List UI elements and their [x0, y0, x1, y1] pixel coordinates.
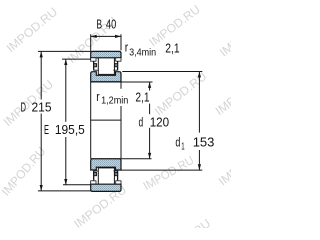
wire d dimension line seg3 [149, 128, 151, 159]
wire E dimension line lower [65, 137, 67, 185]
wire d1 bottom extension [120, 169, 203, 171]
arrow B right [115, 35, 121, 38]
wire B left extension [90, 34, 92, 51]
svg-text:d: d [175, 134, 180, 149]
arrow d up [148, 82, 151, 88]
arrow E up [64, 59, 67, 65]
wire d dimension line seg1 [149, 82, 151, 90]
wire axis line between faces [91, 119, 121, 121]
svg-text:215: 215 [32, 99, 52, 114]
wire d bottom extension / bore bottom line [91, 158, 152, 160]
wire d1 top extension [122, 71, 202, 73]
svg-text:40: 40 [106, 17, 116, 32]
cage rivet bottom right [115, 173, 118, 176]
bearing inner ring bottom half [91, 159, 121, 170]
roller top half [98, 58, 114, 75]
svg-text:d: d [139, 115, 144, 130]
wire B right extension [120, 34, 122, 50]
cage rivet bottom left [94, 173, 97, 176]
svg-text:E: E [44, 122, 49, 137]
cage rivet top right [115, 64, 118, 67]
wire d1 dimension line upper [198, 72, 200, 133]
svg-text:120: 120 [150, 115, 170, 130]
bearing outer ring top half [91, 51, 121, 57]
svg-text:2,1: 2,1 [165, 40, 179, 55]
wire d dimension line seg2 [149, 104, 151, 115]
gap box top right [116, 58, 121, 61]
wire D dimension line lower [40, 114, 42, 191]
gap box top left [91, 58, 96, 61]
wire right ring face [120, 82, 122, 89]
cage top right bar [117, 61, 119, 70]
arrow d1 up [198, 72, 201, 78]
gap box bottom right [116, 181, 121, 184]
cage top left bar [93, 61, 95, 70]
arrow E down [64, 179, 67, 185]
svg-text:195,5: 195,5 [55, 122, 85, 137]
wire B dimension line [91, 35, 121, 37]
bearing outer ring bottom half [91, 184, 121, 191]
arrow d down [148, 153, 151, 159]
cage rivet top left [94, 64, 97, 67]
wire d1 dimension line lower [198, 150, 200, 170]
svg-text:D: D [21, 99, 27, 114]
wire E dimension line upper [65, 59, 67, 122]
wire D bottom extension [38, 190, 91, 192]
arrow B left [91, 35, 97, 38]
svg-text:1: 1 [181, 141, 185, 152]
cage bottom left bar [93, 171, 95, 181]
arrow D up [40, 52, 43, 58]
svg-text:1,2min: 1,2min [101, 95, 128, 107]
arrow D down [40, 185, 43, 191]
svg-text:B: B [96, 17, 102, 32]
wire D top extension [38, 50, 91, 52]
wire d top extension / bore top line [91, 81, 153, 83]
bearing inner ring top half [91, 72, 121, 82]
wire D dimension line upper [40, 52, 42, 100]
cage bottom right bar [117, 171, 119, 181]
svg-text:3,4min: 3,4min [129, 46, 156, 58]
svg-text:r: r [96, 89, 100, 104]
gap box bottom left [91, 181, 96, 184]
svg-text:153: 153 [193, 134, 215, 149]
wire E bottom extension [63, 184, 91, 186]
wire E top extension [62, 58, 91, 60]
arrow d1 down [198, 164, 201, 170]
svg-text:2,1: 2,1 [135, 89, 149, 104]
wire left ring face [90, 82, 92, 159]
roller bottom half [98, 168, 114, 184]
